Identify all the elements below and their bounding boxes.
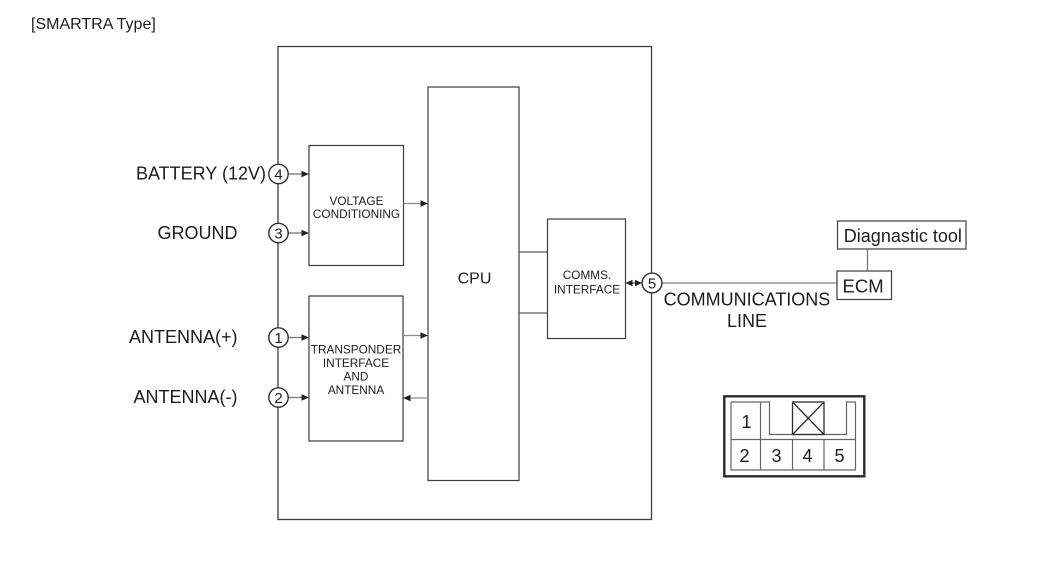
svg-text:2: 2: [739, 446, 749, 466]
svg-text:LINE: LINE: [727, 311, 767, 331]
svg-text:2: 2: [274, 390, 282, 407]
svg-text:BATTERY (12V): BATTERY (12V): [136, 164, 266, 184]
svg-text:ANTENNA(-): ANTENNA(-): [134, 387, 238, 407]
svg-text:Diagnastic tool: Diagnastic tool: [844, 226, 962, 246]
svg-text:5: 5: [834, 446, 844, 466]
svg-text:3: 3: [771, 446, 781, 466]
svg-text:4: 4: [274, 166, 282, 183]
svg-text:5: 5: [648, 275, 656, 292]
svg-text:CPU: CPU: [458, 271, 492, 288]
svg-text:COMMUNICATIONS: COMMUNICATIONS: [664, 290, 831, 310]
svg-text:GROUND: GROUND: [158, 223, 238, 243]
svg-text:INTERFACE: INTERFACE: [554, 283, 620, 297]
svg-text:CONDITIONING: CONDITIONING: [313, 207, 400, 221]
svg-text:4: 4: [802, 446, 812, 466]
svg-text:COMMS.: COMMS.: [563, 268, 612, 282]
svg-text:AND: AND: [344, 370, 369, 384]
svg-text:3: 3: [274, 225, 282, 242]
svg-text:ANTENNA(+): ANTENNA(+): [129, 327, 238, 347]
svg-text:TRANSPONDER: TRANSPONDER: [311, 343, 401, 357]
svg-text:1: 1: [274, 330, 282, 347]
svg-text:[SMARTRA Type]: [SMARTRA Type]: [31, 16, 156, 33]
svg-text:ECM: ECM: [843, 276, 884, 297]
svg-text:ANTENNA: ANTENNA: [328, 383, 385, 397]
svg-text:VOLTAGE: VOLTAGE: [330, 194, 384, 208]
svg-text:INTERFACE: INTERFACE: [323, 356, 389, 370]
svg-text:1: 1: [741, 412, 751, 432]
